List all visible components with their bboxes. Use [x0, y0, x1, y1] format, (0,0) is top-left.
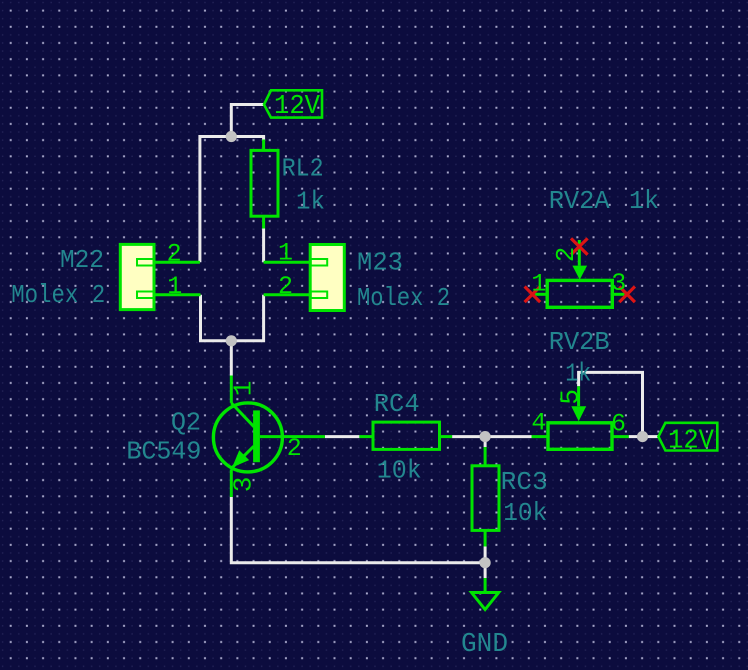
- pin socket M23 pin1: [311, 259, 328, 266]
- wire junction B to Q2 collector: [230, 341, 233, 376]
- svg-text:1k: 1k: [296, 187, 325, 217]
- wire RL2 bottom to M23 pin 1: [262, 229, 265, 263]
- pin RC3 bottom: [484, 530, 487, 546]
- wire Q2 emitter to junction D: [231, 497, 485, 563]
- ground: [472, 578, 499, 610]
- svg-text:1: 1: [278, 238, 293, 267]
- wire junction A to RL2 top: [231, 137, 263, 142]
- pin socket M22 pin2: [137, 259, 154, 266]
- svg-text:Molex 2: Molex 2: [11, 280, 105, 310]
- svg-text:RV2A: RV2A: [549, 186, 610, 216]
- pin Q2 collector: [230, 376, 233, 403]
- svg-text:RC3: RC3: [501, 467, 548, 497]
- svg-text:Molex 2: Molex 2: [357, 283, 450, 313]
- pin M22 1: [154, 293, 201, 296]
- wire 12V flag to corner: [231, 105, 264, 137]
- pin RV2B 4: [532, 435, 549, 438]
- pin M23 2: [264, 293, 311, 296]
- wiper RV2B: [571, 386, 586, 421]
- pin RV2B 6: [612, 435, 629, 438]
- wire RC4 to junction C: [452, 435, 485, 438]
- junction B: [226, 335, 237, 346]
- pin Q2 emitter: [230, 470, 233, 498]
- wire junction A to M22 pin 2: [200, 137, 231, 263]
- svg-text:2: 2: [167, 239, 182, 268]
- svg-text:1k: 1k: [565, 359, 591, 389]
- power flag 12V right: [658, 423, 717, 451]
- svg-text:RL2: RL2: [282, 154, 324, 184]
- svg-text:10k: 10k: [377, 456, 422, 486]
- resistor RC3: [472, 466, 499, 531]
- connector M23: [310, 245, 344, 311]
- power flag 12V top: [264, 90, 322, 117]
- svg-text:3: 3: [611, 269, 626, 298]
- wire junction E to 12V flag right: [643, 435, 659, 438]
- connector M22: [120, 244, 154, 309]
- svg-text:5: 5: [556, 389, 586, 405]
- wire Q2 base to RC4: [325, 435, 360, 438]
- wire M23 pin 2 to junction B: [231, 295, 263, 341]
- transistor Q2: [213, 403, 283, 472]
- wire junction C to RC3 top: [484, 437, 487, 447]
- pin socket M22 pin1: [137, 292, 154, 299]
- svg-text:2: 2: [551, 247, 581, 263]
- pin RL2 bottom: [262, 216, 265, 228]
- svg-text:2: 2: [287, 434, 302, 463]
- potentiometer RV2B: [548, 423, 612, 450]
- svg-text:RV2B: RV2B: [549, 327, 610, 357]
- svg-text:M23: M23: [357, 248, 403, 278]
- svg-text:M22: M22: [60, 245, 104, 275]
- wire junction D to GND: [484, 563, 487, 578]
- svg-text:6: 6: [611, 410, 626, 439]
- svg-text:12V: 12V: [274, 92, 321, 122]
- svg-text:GND: GND: [461, 630, 508, 660]
- svg-text:10k: 10k: [503, 498, 547, 528]
- resistor RC4: [373, 422, 440, 449]
- wire junction C to RV2B pin 4: [485, 435, 531, 438]
- junction D: [480, 557, 491, 568]
- junction C: [480, 431, 491, 442]
- svg-text:RC4: RC4: [374, 389, 420, 419]
- pin RL2 top: [262, 140, 265, 151]
- no-connect X RV2A pin 2: [571, 238, 588, 254]
- pin RC4 right: [438, 435, 452, 438]
- wire RV2B wiper to junction E: [579, 372, 643, 436]
- svg-text:1: 1: [167, 272, 182, 301]
- pin M23 1: [264, 261, 311, 264]
- resistor RL2: [251, 150, 278, 216]
- svg-text:Q2: Q2: [171, 408, 201, 438]
- no-connect X RV2A pin 1: [525, 287, 541, 303]
- potentiometer RV2A: [547, 280, 612, 307]
- svg-text:1: 1: [531, 270, 546, 299]
- wire RC3 bottom to junction D: [484, 547, 487, 563]
- svg-text:4: 4: [531, 408, 546, 437]
- junction A: [226, 131, 237, 142]
- no-connect X RV2A pin 3: [619, 287, 635, 303]
- pin RC3 top: [484, 447, 487, 466]
- wire RV2B pin 6 to junction E: [629, 435, 643, 438]
- pin M22 2: [154, 261, 200, 264]
- junction E: [637, 431, 648, 442]
- wiper RV2A: [572, 240, 587, 280]
- svg-text:1: 1: [229, 381, 259, 397]
- pin socket M23 pin2: [311, 292, 328, 299]
- svg-text:3: 3: [229, 477, 259, 493]
- svg-text:BC549: BC549: [126, 437, 201, 467]
- wire M22 pin 1 to junction B: [201, 295, 232, 341]
- pin RC4 left: [359, 435, 373, 438]
- pin RV2A 1: [535, 293, 547, 296]
- pin RV2A 3: [612, 293, 624, 296]
- svg-text:12V: 12V: [668, 427, 715, 457]
- svg-text:1k: 1k: [629, 186, 659, 216]
- svg-text:2: 2: [278, 272, 293, 301]
- pin Q2 base: [283, 435, 325, 438]
